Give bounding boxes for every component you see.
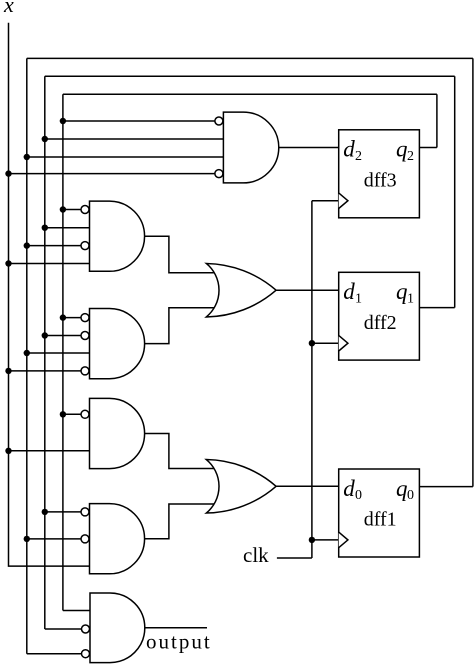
svg-text:2: 2 <box>407 149 414 164</box>
wire q1 bus left vertical w2 <box>44 76 46 629</box>
inverter bubble G6 input 2 <box>82 625 90 633</box>
svg-text:dff1: dff1 <box>364 509 397 531</box>
wire q1 branch to AND1 input 2 <box>45 138 224 140</box>
svg-text:d: d <box>343 279 355 304</box>
junction x / AND2 input 4 <box>5 260 11 266</box>
wire AND4 output elbow to OR2 input 1 <box>145 434 214 469</box>
junction x / AND3 input 4 <box>5 368 11 374</box>
and-gate G3 (4-input, to OR1) <box>90 309 145 379</box>
inverter bubble G1 input 4 <box>215 170 223 178</box>
wire q0 branch to AND3 input 3 <box>27 352 90 354</box>
junction clk / dff2 clock <box>309 340 315 346</box>
wire x input bus (vertical + branch to AND5 input 3) <box>9 23 90 566</box>
inverter bubble G6 input 3 <box>82 650 90 658</box>
svg-text:d: d <box>343 137 355 162</box>
wire q0 bus left vertical w1 <box>26 58 28 653</box>
wire q2 feedback top horizontal <box>63 93 437 95</box>
inverter bubble G4 input 1 <box>81 410 89 418</box>
wire output line <box>145 627 207 629</box>
junction q0 / AND1 input 3 <box>24 154 30 160</box>
inverter bubble G3 input 4 <box>81 367 89 375</box>
svg-text:output: output <box>146 630 212 654</box>
junction q1 / AND5 input 1 <box>42 509 48 515</box>
wire AND2 output elbow to OR1 input 1 <box>145 236 214 273</box>
wire q1 branch to AND3 input 2 <box>45 335 85 337</box>
svg-text:dff3: dff3 <box>364 170 397 192</box>
and-gate G1 (4-input, drives dff3 d2) <box>223 112 278 183</box>
svg-text:q: q <box>396 137 408 162</box>
inverter bubble G5 input 1 <box>81 508 89 516</box>
inverter bubble G1 input 1 <box>215 117 223 125</box>
flip-flop dff1 box <box>339 469 420 557</box>
junction q2 / AND2 input 1 <box>60 206 66 212</box>
inverter bubble G3 input 2 <box>81 332 89 340</box>
wire w3 branch to output-gate input 1 <box>63 610 90 612</box>
junction x / AND4 input 2 <box>5 448 11 454</box>
wire x branch to AND4 input 2 <box>9 450 90 452</box>
svg-text:q: q <box>396 476 408 501</box>
junction q0 / AND2 input 3 <box>24 242 30 248</box>
junction q1 / AND1 input 2 <box>42 136 48 142</box>
junction q2 / AND3 input 1 <box>60 314 66 320</box>
wire q2 branch to AND3 input 1 <box>63 317 85 319</box>
svg-text:1: 1 <box>407 292 414 307</box>
wire clk label stub <box>277 557 312 559</box>
wire q2 output stub from dff3 <box>419 147 437 149</box>
flip-flop dff3 box <box>339 130 420 218</box>
inverter bubble G2 input 1 <box>81 206 89 214</box>
svg-text:dff2: dff2 <box>364 312 397 334</box>
or-gate O1 (drives dff2 d1) <box>206 263 276 317</box>
wire q0 feedback right vertical <box>472 58 474 486</box>
svg-text:clk: clk <box>243 543 269 567</box>
svg-text:q: q <box>396 279 408 304</box>
junction x / AND1 input 4 <box>5 170 11 176</box>
and-gate G4 (2-input, to OR2) <box>90 398 145 468</box>
wire q0 feedback top horizontal <box>27 57 473 59</box>
wire w2 branch to output-gate input 2 <box>45 628 86 630</box>
junction clk / dff1 clock <box>309 537 315 543</box>
wire q2 branch to AND1 input 1 <box>63 120 219 122</box>
wire q2 bus left vertical w3 <box>62 94 64 610</box>
svg-text:0: 0 <box>407 488 414 503</box>
wire clk branch to dff1 clock <box>312 539 339 541</box>
wire OR1 output to dff2 d1 <box>276 289 339 291</box>
wire q2 branch to AND2 input 1 <box>63 209 85 211</box>
wire x branch to AND2 input 4 <box>9 263 90 265</box>
wire x branch to AND1 input 4 <box>9 173 220 175</box>
and-gate G2 (4-input, to OR1) <box>90 201 145 271</box>
wire AND5 output elbow to OR2 input 2 <box>145 504 214 539</box>
and-gate G5 (3-input, to OR2) <box>90 504 145 574</box>
svg-text:2: 2 <box>355 149 362 164</box>
svg-text:x: x <box>3 0 14 17</box>
wire q1 feedback right vertical <box>454 76 456 307</box>
junction q2 / AND1 input 1 <box>60 118 66 124</box>
wire q1 feedback top horizontal <box>45 75 455 77</box>
wire q0 output stub from dff1 <box>419 486 473 488</box>
wire clk branch to dff2 clock <box>312 342 339 344</box>
svg-text:0: 0 <box>355 488 362 503</box>
junction q1 / AND3 input 2 <box>42 332 48 338</box>
svg-text:1: 1 <box>355 292 362 307</box>
inverter bubble G3 input 1 <box>81 314 89 322</box>
junction q1 / AND2 input 2 <box>42 225 48 231</box>
wire OR2 output to dff1 d0 <box>276 485 339 487</box>
flip-flop dff2 clock triangle <box>339 335 348 351</box>
wire q0 branch to AND5 input 2 <box>27 538 85 540</box>
junction q0 / AND5 input 2 <box>24 536 30 542</box>
wire q1 branch to AND5 input 1 <box>45 511 85 513</box>
wire q0 branch to AND2 input 3 <box>27 245 85 247</box>
wire clk vertical trunk <box>311 201 313 558</box>
and-gate G6 (3-input, output gate) <box>90 593 145 663</box>
junction q2 / AND4 input 1 <box>60 411 66 417</box>
flip-flop dff2 box <box>339 272 420 360</box>
inverter bubble G5 input 2 <box>81 535 89 543</box>
or-gate O2 (drives dff1 d0) <box>206 460 276 514</box>
flip-flop dff1 clock triangle <box>339 532 348 548</box>
inverter bubble G2 input 3 <box>81 242 89 250</box>
wire AND3 output elbow to OR1 input 2 <box>145 308 214 344</box>
wire q1 output stub from dff2 <box>419 307 454 309</box>
wire clk branch to dff3 clock <box>312 200 339 202</box>
wire AND1 output to dff3 d2 <box>279 147 339 149</box>
wire q2 branch to AND4 input 1 <box>63 413 85 415</box>
wire q0 branch to AND1 input 3 <box>27 156 224 158</box>
svg-text:d: d <box>343 476 355 501</box>
junction q0 / AND3 input 3 <box>24 350 30 356</box>
flip-flop dff3 clock triangle <box>339 193 348 209</box>
wire w1 branch to output-gate input 3 <box>27 653 86 655</box>
wire q1 branch to AND2 input 2 <box>45 227 90 229</box>
wire q2 feedback right vertical <box>436 94 438 147</box>
wire x branch to AND3 input 4 <box>9 370 86 372</box>
